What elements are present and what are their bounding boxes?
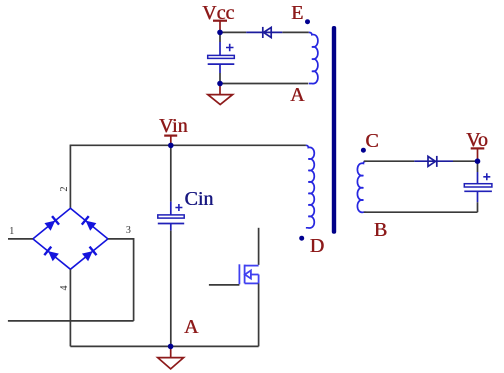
transformer core bar [332, 26, 336, 234]
label C [365, 131, 378, 151]
wire AC input line [8, 320, 134, 322]
label Cin [184, 189, 213, 209]
wire bridge pin2 vertical [69, 145, 71, 208]
capacitor C_out [464, 173, 492, 191]
capacitor C_vcc [208, 44, 235, 64]
bridge diode D4 (edge bottom-right) [82, 247, 97, 262]
label Vo [466, 130, 488, 150]
label Vcc [202, 3, 234, 23]
wire aux diode blue segment [246, 31, 282, 33]
wire bridge pin4 vertical [69, 269, 71, 346]
bridge rectifier diamond [33, 208, 108, 269]
label A (aux) [290, 85, 304, 105]
winding secondary (4 bumps left) [357, 161, 366, 212]
winding primary (7 bumps right) [306, 145, 314, 228]
phase dot E [305, 19, 310, 24]
bridge diode D2 (edge right-top) [82, 216, 97, 231]
bridge diode D3 (edge bottom-left) [44, 247, 59, 262]
wire source down [258, 283, 260, 346]
label A (ground) [184, 317, 198, 337]
ground (top, below C_vcc) [208, 84, 233, 105]
wire secondary diode blue segment [414, 160, 453, 162]
wire Cin vertical bottom [170, 224, 172, 231]
wire Vo cap top pin [477, 161, 479, 172]
label E [291, 3, 303, 23]
transistor Q1 MOSFET [239, 264, 258, 284]
wire Vcc cap top pin [219, 32, 221, 42]
node dot Vcc cap bottom [217, 81, 223, 87]
power symbol Vcc [213, 21, 227, 33]
wire bottom rail [70, 345, 258, 347]
wire secondary bottom [364, 211, 478, 213]
power symbol Vo [471, 148, 485, 161]
node dot Vcc [217, 30, 223, 36]
wire bridge pin1 stub [8, 238, 33, 240]
wire secondary top left segment [364, 160, 415, 162]
label B [374, 220, 387, 240]
wire Vcc cap bottom pin [219, 64, 221, 73]
capacitor Cin [158, 204, 184, 224]
wire top aux left segment [220, 31, 246, 33]
phase dot C [361, 148, 366, 153]
pin number 4 [60, 283, 70, 293]
phase dot D [299, 236, 304, 241]
wire Vo cap bottom pin [477, 191, 479, 202]
wire secondary top right segment [453, 160, 478, 162]
wire gate [209, 284, 240, 286]
label Vin [159, 116, 188, 136]
pin number 1 [9, 227, 14, 237]
node dot A ground [168, 344, 174, 350]
node dot Vin [168, 143, 174, 149]
power symbol Vin [164, 136, 177, 146]
winding E-A (aux, 4 bumps right) [309, 32, 318, 83]
node dot Vo [475, 158, 481, 164]
pin number 2 [60, 184, 70, 194]
wire Cin vertical top [170, 145, 172, 201]
wire bridge pin3 stub [108, 239, 134, 321]
bridge diode D1 (edge left-top) [44, 216, 59, 231]
wire aux bottom [220, 83, 308, 85]
diode D_aux (points left, cathode bar) [263, 27, 271, 38]
wire Vin rail [70, 144, 306, 146]
wire top aux right segment [282, 31, 309, 33]
label D [310, 236, 324, 256]
wire primary bottom vertical [258, 228, 260, 265]
ground (bottom, node A) [158, 346, 184, 369]
diode D_out (points right, cathode bar) [428, 156, 437, 167]
pin number 3 [126, 226, 131, 236]
